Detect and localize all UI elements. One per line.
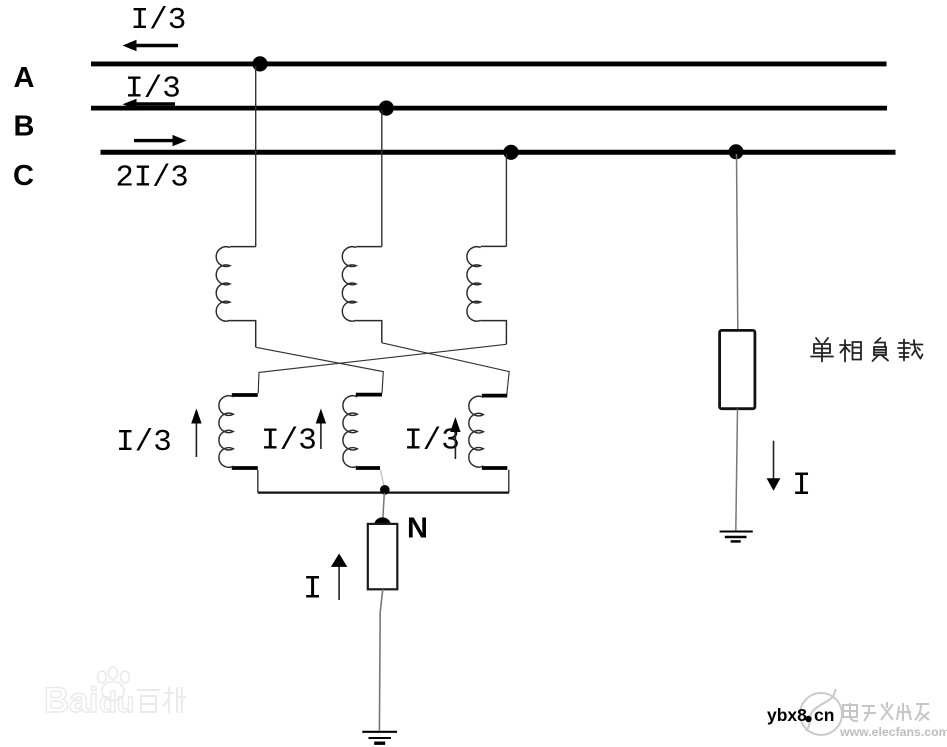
secondary winding W6 coil	[469, 396, 484, 467]
junction node on A	[252, 56, 267, 71]
wire W6 to neutral bus	[508, 470, 510, 493]
ground symbol (neutral)	[362, 732, 397, 743]
phase line B	[91, 106, 887, 111]
arrow up at RN	[331, 554, 347, 601]
watermark logo circle (bottom right)	[800, 689, 842, 735]
crossover wire W3 to W4	[258, 344, 506, 393]
svg-text:I/3: I/3	[261, 424, 317, 459]
wire RN to ground	[379, 589, 382, 730]
wire C to winding W3	[505, 154, 507, 246]
svg-text:cn: cn	[814, 705, 834, 725]
crossover wire W1 to W5	[256, 347, 384, 393]
ground symbol (load)	[720, 532, 753, 542]
arrow down at RL	[767, 441, 781, 491]
primary winding W3 (phase C)	[467, 246, 506, 344]
svg-text:A: A	[14, 62, 35, 94]
wire W5 to neutral bus (faint)	[381, 470, 385, 488]
watermark Baike characters	[137, 687, 186, 713]
load resistor RL (single-phase load)	[720, 330, 755, 408]
arrow up at W5	[316, 409, 326, 450]
arrow up at W4	[191, 409, 201, 458]
char 单	[811, 338, 833, 362]
crossover wire W2 to W6	[382, 343, 509, 395]
resistor RN body	[368, 524, 398, 589]
secondary winding W6 terminals (thick bars)	[482, 396, 507, 468]
phase line C	[101, 150, 896, 155]
neutral bus wire	[258, 491, 509, 493]
primary winding W1 (phase A)	[216, 247, 255, 348]
svg-text:C: C	[13, 160, 34, 192]
wire N junction to resistor RN	[383, 493, 384, 518]
neutral node N junction	[380, 485, 390, 495]
svg-text:ybx8: ybx8	[767, 705, 807, 725]
wire RL to ground	[736, 409, 738, 531]
arrow 2I/3 on line C (right)	[134, 135, 187, 146]
junction node on B	[379, 101, 394, 116]
resistor RN top cap	[375, 517, 391, 524]
label 单相负载 (single-phase load)	[811, 338, 923, 362]
arrow I/3 on line A (left)	[123, 40, 179, 51]
svg-text:B: B	[14, 111, 35, 143]
primary winding W2 (phase B)	[342, 247, 381, 343]
secondary winding W4 terminals (thick bars)	[232, 395, 258, 468]
char 负	[873, 338, 889, 361]
watermark Baidu Baike (bottom left)	[44, 667, 134, 720]
secondary winding W5 coil	[343, 396, 357, 468]
svg-text:I: I	[792, 467, 811, 504]
svg-text:du: du	[99, 687, 134, 719]
svg-text:I/3: I/3	[116, 425, 172, 460]
junction node on C (left)	[503, 145, 518, 160]
svg-text:2I/3: 2I/3	[116, 162, 189, 196]
svg-text:www.elecfans.com: www.elecfans.com	[839, 725, 947, 739]
svg-text:I: I	[303, 571, 322, 608]
watermark dot	[805, 716, 811, 722]
watermark elecfans characters	[843, 702, 929, 721]
secondary winding W4 coil	[219, 396, 233, 468]
arrow I/3 on line B (left)	[123, 99, 176, 110]
wire C to load RL	[737, 154, 738, 331]
svg-text:I/3: I/3	[131, 3, 187, 38]
phase line A	[91, 61, 887, 66]
char 载	[898, 340, 923, 361]
char 相	[840, 340, 861, 362]
svg-text:Bai: Bai	[44, 681, 98, 720]
wire B to winding W2	[381, 110, 383, 247]
wire W4 to neutral bus	[257, 470, 259, 493]
arrow up at W6	[450, 417, 460, 459]
wire A to winding W1	[255, 66, 257, 247]
svg-text:N: N	[407, 513, 428, 545]
secondary winding W5 terminals (thick bars)	[356, 395, 382, 468]
junction node on C (right, to load)	[729, 144, 744, 159]
